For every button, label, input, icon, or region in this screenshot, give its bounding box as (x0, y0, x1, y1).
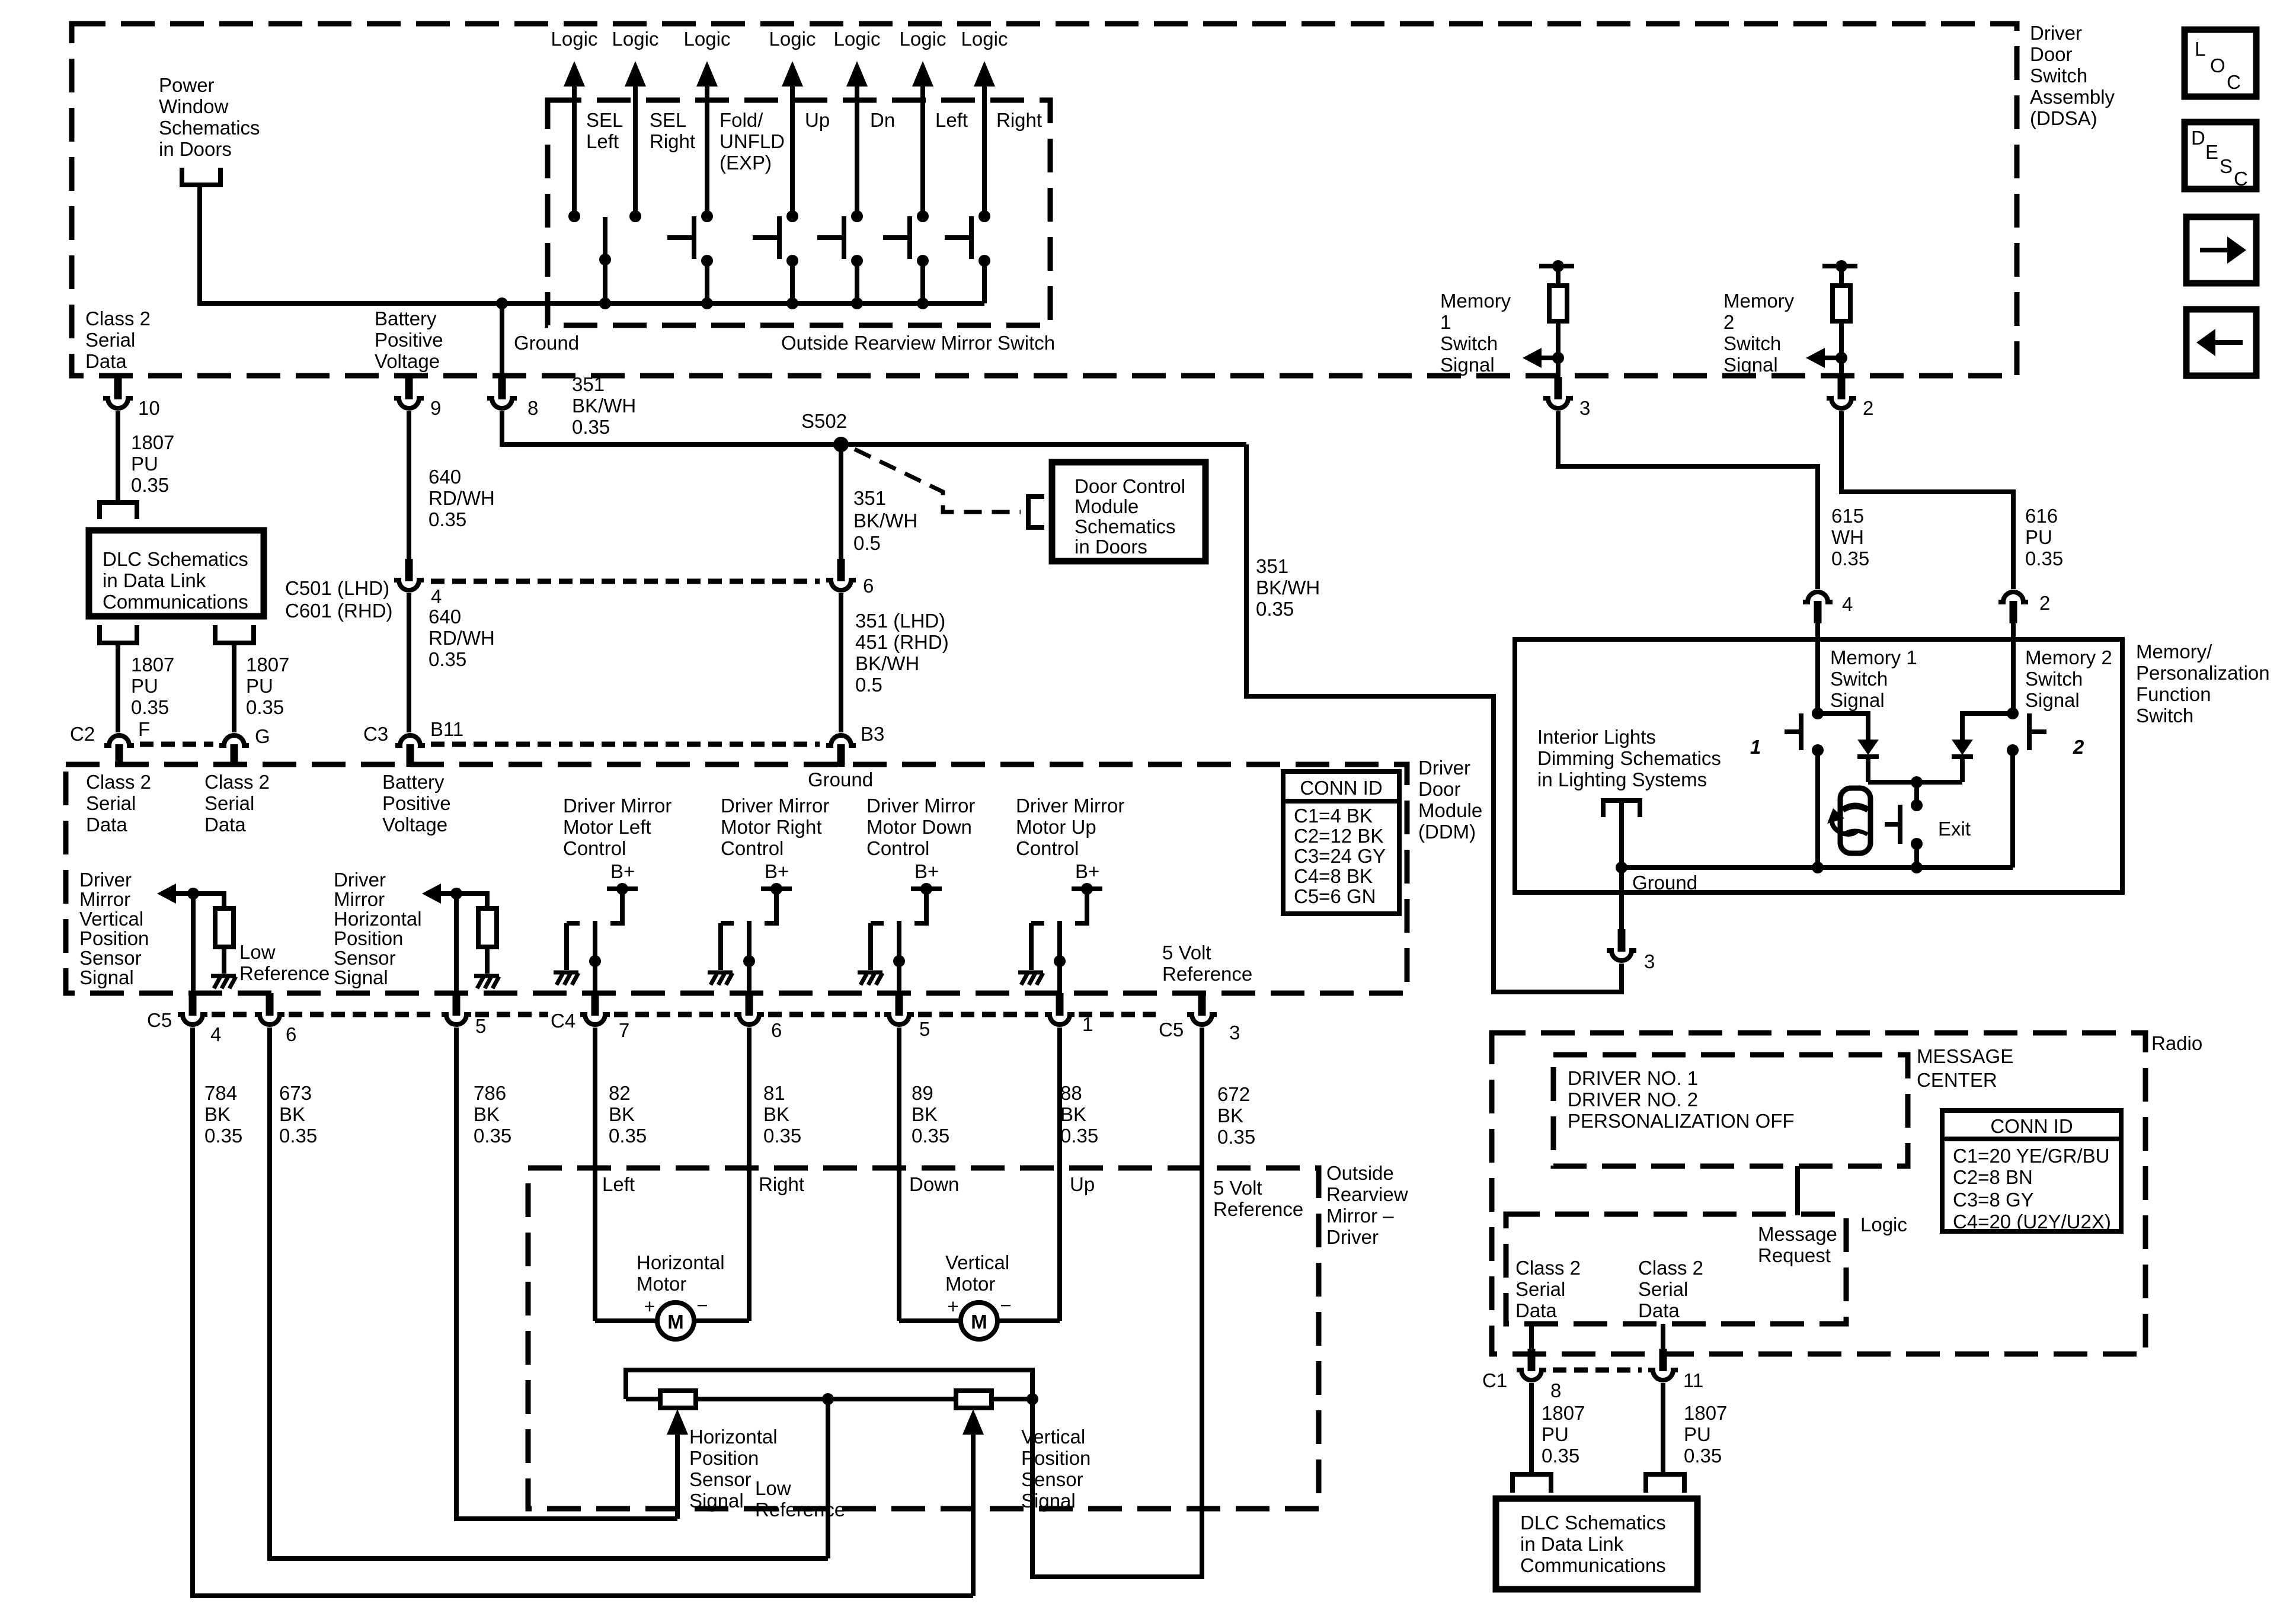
svg-text:1: 1 (1440, 311, 1451, 333)
svg-text:Data: Data (85, 350, 127, 372)
svg-text:Vertical: Vertical (79, 908, 143, 930)
svg-text:Logic: Logic (961, 28, 1008, 50)
svg-text:Memory 2: Memory 2 (2025, 646, 2112, 668)
wire 784 BK (193, 1028, 973, 1596)
svg-text:1: 1 (1750, 736, 1761, 758)
box Door Control Module Schematics in Doors (1052, 462, 1205, 561)
box MESSAGE CENTER (1553, 1055, 1908, 1166)
svg-text:in Data Link: in Data Link (103, 569, 206, 591)
svg-text:89: 89 (912, 1082, 933, 1104)
wire 351 BK/WH horizontal (502, 411, 1246, 444)
svg-text:Driver Mirror: Driver Mirror (866, 795, 975, 817)
svg-text:Serial: Serial (1515, 1278, 1565, 1300)
table CONN ID Radio (1942, 1110, 2121, 1233)
wire (1839, 266, 1844, 286)
connector pin 10 (103, 377, 160, 419)
connector M/P pin 3 (1606, 929, 1655, 972)
svg-text:Logic: Logic (900, 28, 946, 50)
wire (1839, 358, 1844, 379)
svg-text:Schematics: Schematics (159, 117, 260, 139)
svg-text:M: M (971, 1311, 987, 1333)
bracket from DLC left (100, 625, 137, 643)
motor Horizontal (595, 1251, 749, 1339)
bracket to DLC Schematics (100, 502, 137, 519)
svg-text:S502: S502 (801, 410, 847, 432)
box Driver Door Module DDM (66, 764, 1407, 993)
svg-text:0.35: 0.35 (1217, 1126, 1255, 1148)
switch Motor Down Control B+ (858, 860, 942, 994)
wire ground bus (502, 301, 984, 306)
bracket to DLC no1 (1512, 1474, 1551, 1493)
svg-text:Interior Lights: Interior Lights (1537, 726, 1656, 748)
svg-text:2: 2 (1723, 311, 1734, 333)
svg-text:0.5: 0.5 (855, 674, 882, 696)
svg-text:7: 7 (619, 1019, 629, 1041)
box DLC Schematics in Data Link Communications (89, 530, 264, 616)
svg-text:Schematics: Schematics (1075, 516, 1176, 537)
svg-text:0.35: 0.35 (279, 1125, 317, 1147)
svg-text:C601 (RHD): C601 (RHD) (285, 600, 393, 622)
svg-text:(DDSA): (DDSA) (2030, 107, 2097, 129)
svg-text:DLC Schematics: DLC Schematics (103, 548, 248, 570)
wire diode1 to bus (1866, 757, 1870, 782)
svg-text:BK: BK (204, 1103, 231, 1125)
svg-text:B11: B11 (430, 718, 463, 740)
wire class2 no2 (1661, 1324, 1665, 1351)
svg-text:0.35: 0.35 (246, 696, 284, 718)
svg-text:Battery: Battery (382, 771, 445, 793)
connector C4 pin 7 (551, 993, 629, 1041)
wire memory2 top bar (1822, 264, 1857, 268)
node Logic 3 (684, 28, 731, 216)
bracket to Power Window Schematics (182, 168, 220, 185)
node 5 volt tap (1027, 1393, 1038, 1405)
svg-text:Signal: Signal (1830, 689, 1885, 711)
class 2 serial data labels (1515, 1257, 1581, 1321)
table CONN ID DDM (1283, 772, 1399, 914)
svg-text:C1: C1 (1482, 1369, 1507, 1391)
svg-text:BK: BK (912, 1103, 938, 1125)
svg-text:CONN ID: CONN ID (1990, 1115, 2073, 1137)
switch function labels (586, 109, 623, 152)
svg-text:Logic: Logic (1860, 1214, 1907, 1235)
label Interior Lights Dimming (1537, 726, 1721, 790)
svg-text:Voltage: Voltage (375, 350, 440, 372)
svg-text:G: G (255, 725, 270, 747)
wire M/P ground bus (1616, 862, 2013, 873)
svg-text:Right: Right (759, 1173, 804, 1195)
bracket to Door Control Module (1028, 497, 1044, 527)
svg-text:MESSAGE: MESSAGE (1917, 1045, 2013, 1067)
svg-text:Left: Left (602, 1173, 635, 1195)
svg-text:Sensor: Sensor (689, 1468, 752, 1490)
svg-text:BK: BK (279, 1103, 305, 1125)
svg-text:Motor: Motor (637, 1273, 686, 1295)
svg-text:−: − (696, 1294, 708, 1316)
box Memory/Personalization Function Switch (1515, 639, 2122, 892)
wire memory1 top bar (1539, 264, 1574, 268)
svg-text:Logic: Logic (769, 28, 816, 50)
connector C4 pin 6 (734, 993, 782, 1041)
svg-text:Vertical: Vertical (1021, 1426, 1085, 1448)
diode D1 (1857, 740, 1879, 757)
svg-text:Control: Control (866, 837, 929, 859)
svg-text:in Lighting Systems: in Lighting Systems (1537, 769, 1707, 790)
connector pin 4 into M/P switch (1802, 590, 1853, 641)
svg-text:Control: Control (721, 837, 784, 859)
connector C2 pin F (70, 718, 150, 767)
node Logic 2 (612, 28, 659, 216)
connector pin 9 (394, 377, 441, 419)
node Logic 6 (900, 28, 946, 216)
svg-text:PERSONALIZATION OFF: PERSONALIZATION OFF (1568, 1110, 1795, 1132)
svg-text:C1=4 BK: C1=4 BK (1294, 805, 1373, 827)
svg-text:640: 640 (428, 606, 461, 628)
svg-text:SEL: SEL (650, 109, 686, 131)
svg-text:BK: BK (1060, 1103, 1086, 1125)
switch Left contact (883, 210, 929, 309)
svg-text:C2=12 BK: C2=12 BK (1294, 825, 1383, 847)
svg-text:Position: Position (79, 927, 149, 949)
box Driver Door Switch Assembly (DDSA) (72, 24, 2017, 376)
svg-text:1807: 1807 (246, 654, 289, 676)
svg-text:Signal: Signal (334, 966, 388, 988)
svg-text:4: 4 (210, 1023, 221, 1045)
svg-text:C3=24 GY: C3=24 GY (1294, 845, 1386, 867)
svg-text:673: 673 (279, 1082, 312, 1104)
svg-text:C: C (2234, 168, 2248, 190)
label Low Reference (239, 941, 330, 984)
svg-text:Left: Left (935, 109, 968, 131)
svg-text:10: 10 (138, 397, 160, 419)
svg-text:Data: Data (86, 814, 127, 836)
svg-text:0.35: 0.35 (572, 416, 610, 438)
svg-text:(EXP): (EXP) (720, 152, 772, 174)
diode D2 (1952, 740, 1973, 757)
svg-text:Driver: Driver (2030, 22, 2082, 44)
connector C5 pin 6 (254, 993, 296, 1045)
svg-text:Reference: Reference (1213, 1198, 1303, 1220)
svg-text:6: 6 (286, 1023, 296, 1045)
svg-text:C3: C3 (363, 723, 388, 745)
box arrow right (2186, 217, 2256, 283)
svg-text:Horizontal: Horizontal (637, 1251, 725, 1273)
svg-text:WH: WH (1831, 526, 1864, 548)
resistor to ground (vertical sensor) (193, 894, 236, 988)
icon car with arrow (1827, 788, 1870, 853)
bracket to DLC no2 (1646, 1474, 1684, 1493)
wire class2 no1 (1529, 1324, 1534, 1351)
wire connector dotted C5/C4 (212, 1012, 1156, 1017)
label DDSA (2030, 22, 2115, 129)
wire M/P pin3 down-left (1619, 964, 1624, 992)
svg-text:DRIVER NO. 1: DRIVER NO. 1 (1568, 1067, 1698, 1089)
svg-text:0.35: 0.35 (1831, 548, 1869, 569)
arrow vertical position sensor signal (157, 884, 199, 904)
wire memory1 into switch (1815, 641, 1820, 713)
svg-text:615: 615 (1831, 505, 1864, 527)
arrow horizontal sensor wiper (667, 1409, 688, 1519)
svg-text:Message: Message (1758, 1223, 1837, 1245)
wire 89 BK (897, 1028, 901, 1321)
svg-text:C4=8 BK: C4=8 BK (1294, 865, 1373, 887)
wire 673 BK (270, 1028, 828, 1558)
box DLC Schematics in Data Link Communications (radio) (1496, 1499, 1697, 1589)
label Power Window Schematics in Doors (159, 74, 260, 160)
svg-text:Ground: Ground (1632, 872, 1697, 894)
arrow memory2 switch signal (1806, 348, 1841, 368)
svg-text:6: 6 (771, 1019, 782, 1041)
svg-text:5 Volt: 5 Volt (1213, 1177, 1262, 1199)
svg-text:Function: Function (2136, 683, 2211, 705)
svg-text:L: L (2195, 38, 2205, 60)
wire message request (1795, 1166, 1800, 1215)
svg-text:Logic: Logic (834, 28, 881, 50)
motor Vertical (899, 1251, 1060, 1339)
svg-text:PU: PU (1684, 1423, 1711, 1445)
wire (1839, 321, 1844, 358)
svg-text:Class 2: Class 2 (86, 771, 151, 793)
connector C4 pin 1 (1044, 993, 1093, 1035)
svg-text:Down: Down (909, 1173, 959, 1195)
wire (1556, 321, 1560, 358)
svg-text:DLC Schematics: DLC Schematics (1520, 1512, 1666, 1534)
svg-text:Positive: Positive (375, 329, 443, 351)
svg-text:Class 2: Class 2 (204, 771, 270, 793)
svg-text:672: 672 (1217, 1083, 1250, 1105)
svg-text:Data: Data (1638, 1299, 1680, 1321)
wire 786 stem (454, 894, 459, 994)
svg-text:Low: Low (755, 1477, 791, 1499)
svg-text:4: 4 (431, 585, 442, 607)
box Radio (1492, 1033, 2145, 1354)
connector pin 3 (1543, 377, 1590, 419)
node low reference tap (822, 1393, 834, 1405)
svg-text:0.35: 0.35 (1256, 598, 1294, 620)
connector C3 pin B3 (826, 723, 884, 767)
svg-text:in Doors: in Doors (159, 138, 232, 160)
wire 784 stem (191, 894, 196, 994)
svg-text:C4=20 (U2Y/U2X): C4=20 (U2Y/U2X) (1953, 1211, 2111, 1233)
bracket to Interior Lights Dimming Schematics (1603, 801, 1640, 817)
svg-text:0.35: 0.35 (428, 648, 466, 670)
resistor vertical position sensor (956, 1391, 992, 1408)
wire 640 RD/WH (407, 411, 411, 559)
svg-text:Rearview: Rearview (1326, 1183, 1408, 1205)
svg-text:0.35: 0.35 (763, 1125, 801, 1147)
svg-text:Sensor: Sensor (79, 947, 142, 969)
resistor horizontal position sensor (660, 1391, 696, 1408)
svg-text:Signal: Signal (689, 1490, 744, 1512)
connector C3 pin B11 (363, 718, 463, 767)
svg-text:0.35: 0.35 (609, 1125, 647, 1147)
svg-text:Module: Module (1418, 799, 1482, 821)
sensor labels (689, 1426, 778, 1512)
svg-text:Reference: Reference (239, 962, 330, 984)
wire S502 leader dashed (855, 449, 1021, 512)
svg-text:Position: Position (689, 1447, 759, 1469)
svg-text:784: 784 (204, 1082, 237, 1104)
box Outside Rearview Mirror Switch (548, 100, 1050, 325)
connector C4 pin 5 (884, 993, 930, 1040)
svg-text:0.35: 0.35 (912, 1125, 949, 1147)
svg-text:Up: Up (805, 109, 830, 131)
label Memory 1 Switch Signal (1830, 646, 1917, 711)
svg-text:Module: Module (1075, 495, 1139, 517)
wire 1807 PU to C2-G (232, 643, 236, 732)
wire memory1 to ground bus (1815, 750, 1820, 868)
svg-text:Right: Right (996, 109, 1042, 131)
svg-text:Driver: Driver (1418, 757, 1470, 779)
svg-text:3: 3 (1644, 950, 1655, 972)
wire labels below DDM (204, 1082, 242, 1147)
connector pin 2 into M/P switch (1998, 590, 2050, 641)
svg-text:DRIVER NO. 2: DRIVER NO. 2 (1568, 1089, 1698, 1110)
svg-text:Motor Left: Motor Left (563, 816, 651, 838)
svg-text:Ground: Ground (514, 332, 579, 354)
svg-text:Switch: Switch (2136, 705, 2193, 726)
svg-text:0.35: 0.35 (204, 1125, 242, 1147)
svg-text:1807: 1807 (1684, 1402, 1727, 1424)
svg-text:Memory 1: Memory 1 (1830, 646, 1917, 668)
svg-text:PU: PU (1542, 1423, 1569, 1445)
svg-text:Memory: Memory (1723, 290, 1795, 312)
wire to diode 2 (1962, 713, 2013, 740)
svg-text:Dn: Dn (870, 109, 895, 131)
svg-text:Horizontal: Horizontal (334, 908, 422, 930)
resistor to ground (horizontal sensor) (456, 894, 499, 988)
svg-text:Ground: Ground (808, 769, 873, 790)
svg-text:Communications: Communications (1520, 1554, 1666, 1576)
svg-text:1807: 1807 (131, 431, 174, 453)
svg-text:C501 (LHD): C501 (LHD) (285, 577, 389, 599)
svg-text:Outside Rearview Mirror Switch: Outside Rearview Mirror Switch (781, 332, 1055, 354)
svg-text:Driver Mirror: Driver Mirror (721, 795, 829, 817)
svg-text:Switch: Switch (1440, 332, 1498, 354)
svg-text:−: − (1000, 1294, 1011, 1316)
svg-text:0.5: 0.5 (853, 532, 881, 554)
label 5 Volt Reference (DDM) (1162, 942, 1252, 985)
svg-text:5: 5 (919, 1018, 930, 1040)
svg-text:(DDM): (DDM) (1418, 821, 1476, 843)
svg-text:PU: PU (131, 453, 158, 475)
wire 1807 PU (116, 411, 120, 501)
svg-text:351: 351 (572, 373, 605, 395)
wire diode bus (1868, 776, 1962, 788)
switch Right contact (945, 210, 990, 303)
wire (1556, 358, 1560, 379)
svg-text:Radio: Radio (2151, 1032, 2202, 1054)
svg-text:C3=8 GY: C3=8 GY (1953, 1189, 2034, 1211)
svg-text:PU: PU (131, 675, 158, 697)
svg-text:+: + (644, 1295, 655, 1317)
svg-text:in Data Link: in Data Link (1520, 1533, 1624, 1555)
wire 672 BK (1032, 1028, 1202, 1577)
node Logic 1 (551, 28, 598, 216)
svg-text:BK/WH: BK/WH (1256, 577, 1320, 598)
svg-text:Mirror –: Mirror – (1326, 1205, 1394, 1227)
svg-text:Switch: Switch (2025, 668, 2083, 690)
svg-text:Exit: Exit (1938, 818, 1971, 840)
svg-text:Horizontal: Horizontal (689, 1426, 778, 1448)
wire memory2 into switch (2011, 641, 2016, 713)
wire exit stem (1914, 782, 1919, 805)
wire 82 BK (593, 1028, 597, 1321)
label Memory 2 Switch Signal (2025, 646, 2112, 711)
svg-text:640: 640 (428, 466, 461, 488)
svg-text:Motor Right: Motor Right (721, 816, 822, 838)
svg-text:Position: Position (1021, 1447, 1091, 1469)
svg-text:0.35: 0.35 (131, 474, 169, 496)
svg-text:Driver Mirror: Driver Mirror (1016, 795, 1124, 817)
wire 1807 PU to C2-F (116, 643, 120, 732)
svg-text:Class 2: Class 2 (85, 308, 151, 329)
svg-text:Vertical: Vertical (945, 1251, 1009, 1273)
svg-text:Driver: Driver (79, 869, 132, 891)
svg-text:1807: 1807 (131, 654, 174, 676)
svg-text:B+: B+ (765, 860, 789, 882)
svg-text:Left: Left (586, 130, 619, 152)
svg-text:Signal: Signal (2025, 689, 2080, 711)
svg-text:351: 351 (1256, 555, 1288, 577)
svg-text:Logic: Logic (551, 28, 598, 50)
svg-text:6: 6 (863, 575, 874, 597)
svg-text:C1=20 YE/GR/BU: C1=20 YE/GR/BU (1953, 1145, 2109, 1167)
switch memory 1 (1785, 708, 1824, 756)
svg-text:C5: C5 (147, 1009, 172, 1031)
connector C501 pin 4 (394, 559, 442, 607)
arrow horizontal position sensor signal (422, 884, 462, 904)
svg-text:BK: BK (474, 1103, 500, 1125)
svg-text:Serial: Serial (86, 792, 136, 814)
svg-text:0.35: 0.35 (1542, 1445, 1579, 1467)
svg-text:Signal: Signal (79, 966, 134, 988)
switch Motor Left Control B+ (554, 860, 638, 994)
arrow memory1 switch signal (1523, 348, 1558, 368)
svg-text:Sensor: Sensor (334, 947, 396, 969)
label Driver Door Module (DDM) (1418, 757, 1482, 843)
switch Motor Up Control B+ (1018, 860, 1102, 994)
svg-text:1: 1 (1082, 1013, 1093, 1035)
svg-text:Up: Up (1070, 1173, 1095, 1195)
svg-text:Door Control: Door Control (1075, 475, 1185, 497)
node Logic 5 (834, 28, 881, 216)
switch Dn contact (817, 210, 863, 309)
svg-text:0.35: 0.35 (474, 1125, 511, 1147)
svg-text:RD/WH: RD/WH (428, 627, 495, 649)
svg-text:Reference: Reference (1162, 963, 1252, 985)
node Logic 4 (769, 28, 816, 216)
svg-text:1807: 1807 (1542, 1402, 1585, 1424)
svg-text:Voltage: Voltage (382, 814, 447, 836)
switch Up contact (753, 210, 798, 309)
box DESC (2185, 122, 2256, 190)
svg-text:B+: B+ (610, 860, 635, 882)
svg-text:S: S (2220, 155, 2233, 177)
svg-text:2: 2 (2039, 592, 2050, 614)
svg-text:Door: Door (1418, 778, 1461, 800)
svg-text:Logic: Logic (612, 28, 659, 50)
svg-text:Power: Power (159, 74, 215, 96)
node Logic 7 (961, 28, 1008, 216)
svg-text:BK: BK (609, 1103, 635, 1125)
svg-text:82: 82 (609, 1082, 631, 1104)
svg-text:0.35: 0.35 (1684, 1445, 1722, 1467)
message center text (1568, 1067, 1795, 1132)
wire diode2 to bus (1960, 757, 1965, 782)
wire sensor resistor line (626, 1397, 1032, 1401)
svg-text:Positive: Positive (382, 792, 451, 814)
